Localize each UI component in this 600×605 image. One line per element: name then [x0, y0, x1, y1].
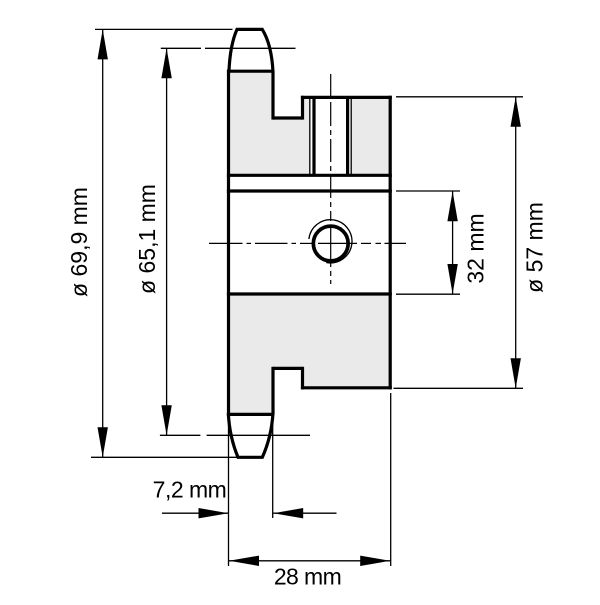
extension line hub bottom: [394, 387, 524, 389]
upper recess line: [273, 116, 303, 119]
extension line plate left bottom: [228, 420, 230, 566]
hub bottom line: [301, 386, 392, 389]
set screw thread line right: [350, 99, 352, 174]
arrow 32 down: [447, 264, 457, 294]
plate left edge: [227, 70, 230, 416]
dimension line 7.2 left: [162, 512, 229, 514]
dimension line 7.2 right: [273, 512, 336, 514]
hub top line: [301, 96, 392, 99]
extension line bore bottom: [396, 293, 460, 295]
bottom tooth root line: [227, 413, 274, 416]
dimension line dia 57: [515, 97, 517, 389]
extension line pitch bottom (dashed): [160, 434, 201, 436]
bore bottom line: [227, 292, 392, 295]
arrow 28 right: [360, 556, 390, 566]
screw hole centerline (vertical dashes): [330, 74, 332, 284]
svg-text:28 mm: 28 mm: [274, 564, 341, 590]
sprocket upper section body (gray): [229, 71, 391, 175]
arrow dia57 up: [511, 97, 521, 127]
plate right edge lower: [271, 367, 274, 415]
extension line plate right bottom: [272, 416, 274, 518]
set screw thread arc: [309, 220, 352, 263]
set screw thread line left: [309, 99, 311, 174]
svg-text:7,2 mm: 7,2 mm: [153, 477, 227, 503]
arrow dia69.9 down: [98, 427, 108, 457]
svg-text:ø 69,9 mm: ø 69,9 mm: [66, 187, 92, 297]
extension line pitch top (dashed): [161, 47, 201, 49]
arrow dia65.1 up: [161, 48, 171, 78]
set screw tapped hole circle: [313, 226, 348, 261]
main axis centerline (horizontal dashes): [209, 242, 406, 244]
lower hub step edge: [301, 367, 304, 390]
dimension line dia 65.1: [166, 48, 168, 435]
hub right edge: [389, 96, 392, 390]
arrow 7.2 right-pointing: [199, 508, 229, 518]
bottom tooth profile: [228, 413, 273, 457]
arrow dia57 down: [511, 358, 521, 388]
extension line hub top: [396, 96, 523, 98]
arrow 7.2 left-pointing: [273, 508, 303, 518]
arrow dia65.1 down: [161, 405, 171, 435]
dimension line 28: [229, 560, 391, 562]
plate right edge upper: [271, 71, 274, 119]
keyway top line: [227, 174, 392, 177]
top tooth profile: [229, 29, 273, 72]
svg-text:ø 65,1 mm: ø 65,1 mm: [134, 184, 160, 294]
set screw hole slot (white cutout): [310, 99, 350, 175]
bore top line: [227, 189, 392, 192]
sprocket lower section body (gray): [229, 294, 391, 414]
lower recess line: [273, 367, 303, 370]
arrow dia69.9 up: [98, 29, 108, 59]
dimension line 32: [452, 191, 454, 294]
extension line tooth tip bottom: [91, 456, 237, 458]
extension line hub right bottom: [390, 393, 392, 566]
extension line bore top: [396, 190, 460, 192]
arrow 28 left: [229, 556, 259, 566]
extension line tooth tip top: [95, 28, 233, 30]
svg-text:ø 57 mm: ø 57 mm: [522, 202, 548, 293]
dimension line dia 69.9: [102, 29, 104, 457]
top tooth root line: [227, 70, 274, 73]
set screw slot right wall: [346, 99, 349, 175]
upper hub step edge: [301, 96, 304, 120]
set screw slot left wall: [312, 99, 315, 175]
svg-text:32 mm: 32 mm: [463, 213, 489, 283]
arrow 32 up: [447, 191, 457, 221]
